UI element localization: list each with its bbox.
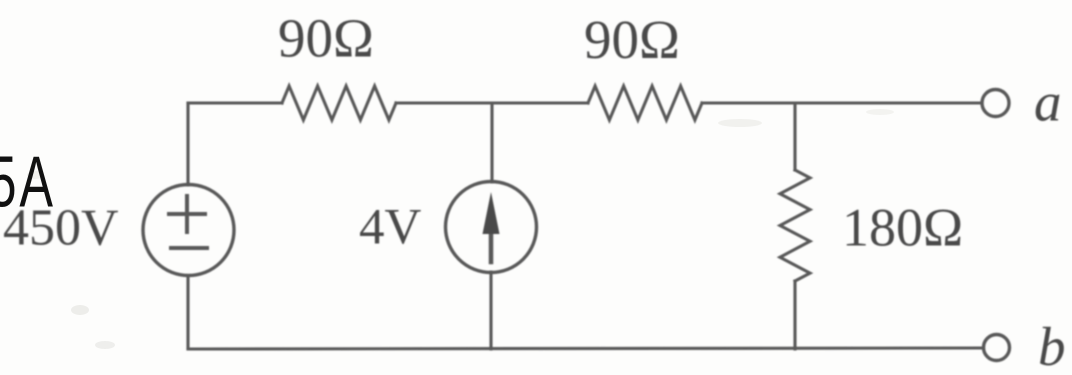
wire: right branch upper (top wire to 180ohm) — [793, 103, 796, 170]
resistor R1 90ohm (top-left zigzag) — [282, 86, 396, 120]
current source arrow head — [483, 192, 500, 234]
resistor R2 90ohm (top-right zigzag) — [588, 86, 702, 120]
voltage source plus sign — [169, 196, 205, 232]
wire: left branch upper (top wire down to voltage source) — [186, 103, 189, 185]
svg-text:4V: 4V — [359, 200, 422, 256]
wire: left branch lower (voltage source to bottom wire) — [186, 276, 189, 349]
scan background speckle — [27, 109, 894, 349]
terminal b (open circle) — [984, 335, 1010, 361]
svg-text:a: a — [1034, 72, 1062, 133]
resistor R3 180ohm (vertical zigzag) — [780, 170, 810, 281]
terminal a (open circle) — [982, 90, 1009, 117]
wire: top middle, R1 to node at current source — [396, 101, 492, 104]
svg-text:90Ω: 90Ω — [278, 8, 374, 69]
svg-text:180Ω: 180Ω — [842, 198, 963, 258]
voltage source minus sign — [171, 246, 207, 250]
svg-text:b: b — [1038, 316, 1066, 375]
voltage source V1 450V (circle) — [143, 185, 234, 276]
current source I1 (circle with up arrow), labelled 4V — [446, 182, 537, 273]
wire: top middle, node to R2 — [492, 101, 588, 104]
wire: right branch lower (180ohm to bottom wire) — [793, 281, 796, 349]
wire: bottom rail from source to terminal b — [188, 348, 984, 349]
svg-text:5A: 5A — [0, 143, 56, 223]
wire: middle branch lower (current source to bottom wire) — [489, 272, 492, 349]
wire: R2 to node at 180ohm branch — [702, 101, 795, 104]
wire: middle branch upper (top wire to current source) — [490, 103, 493, 182]
wire: top-left horizontal, source to R1 — [188, 101, 282, 104]
svg-text:90Ω: 90Ω — [584, 9, 680, 70]
current source arrow tail — [489, 232, 494, 262]
wire: node to terminal a — [795, 101, 982, 104]
